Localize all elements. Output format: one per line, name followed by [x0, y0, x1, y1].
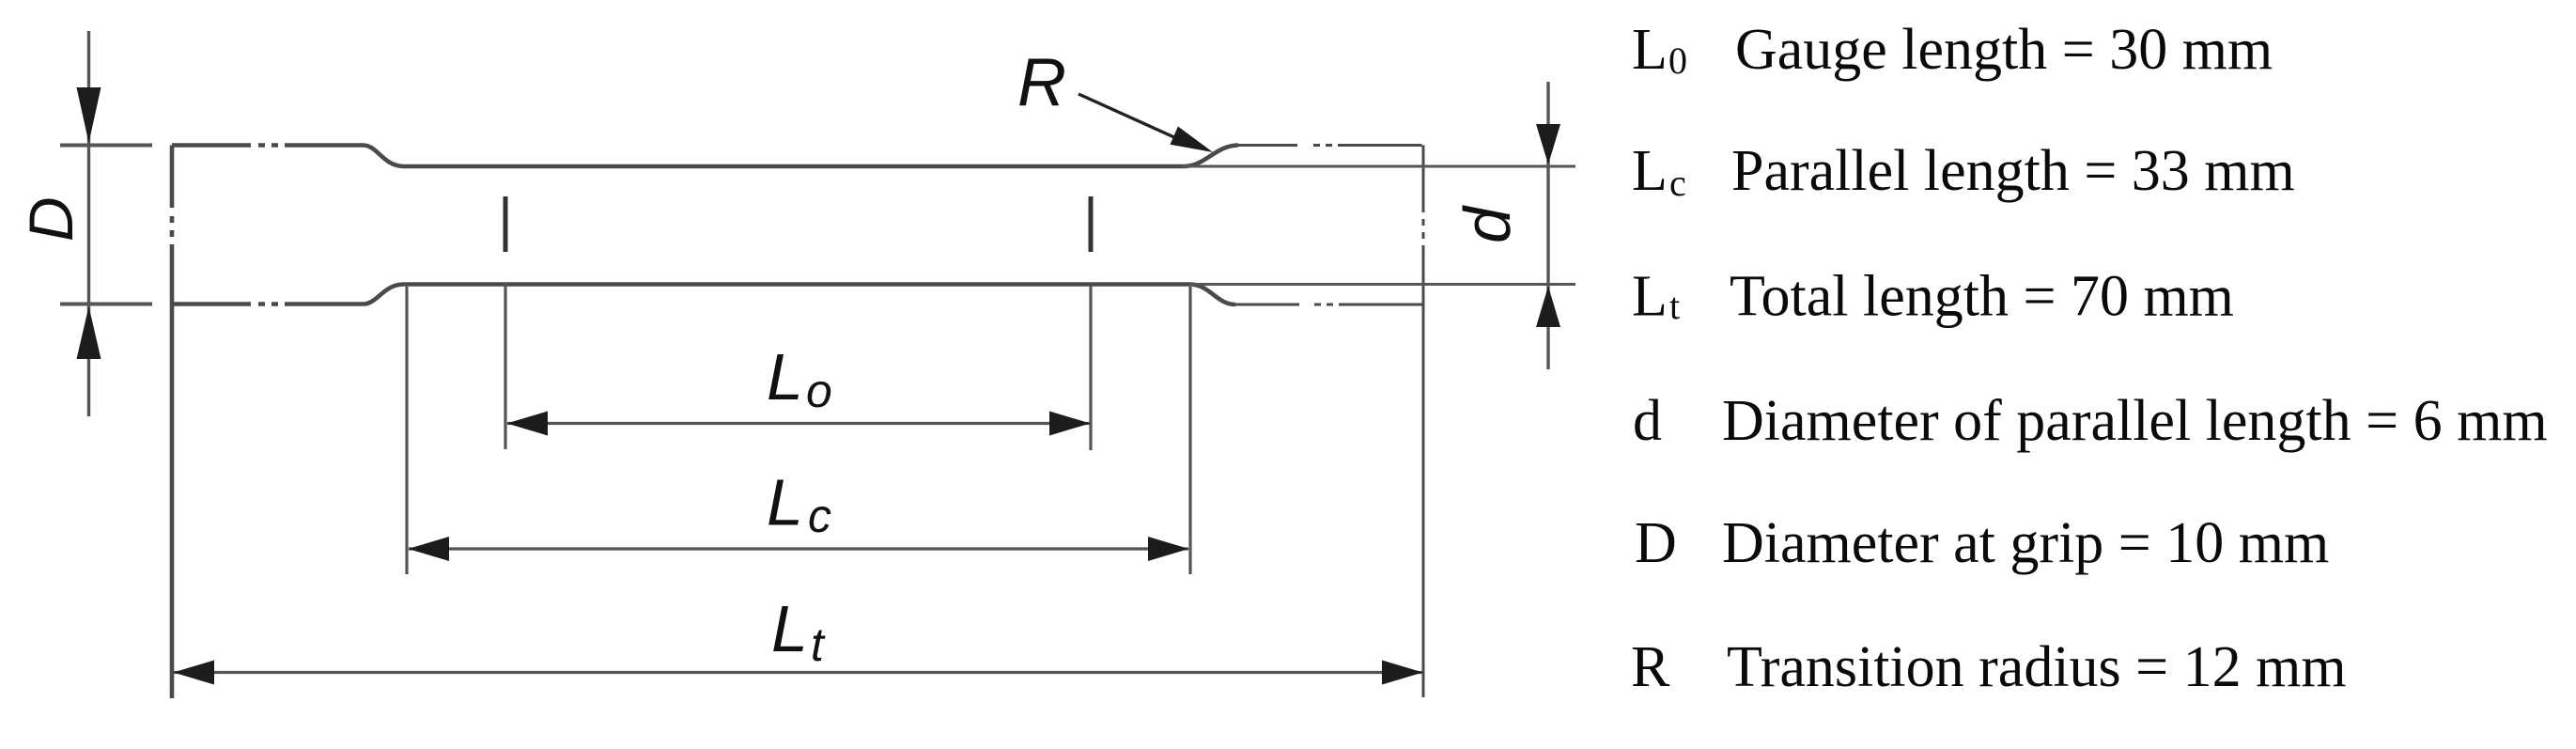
Lc extension line left [405, 287, 408, 574]
svg-text:L: L [767, 466, 803, 539]
svg-text:c: c [1669, 162, 1686, 204]
legend row 4: d Diameter of parallel length [1633, 389, 2548, 453]
svg-text:c: c [808, 490, 831, 542]
svg-text:d: d [1633, 389, 1662, 453]
gauge length tick right [1089, 196, 1094, 252]
d extension line top [1182, 165, 1575, 168]
svg-text:L: L [767, 340, 803, 414]
svg-text:Parallel length = 33 mm: Parallel length = 33 mm [1731, 139, 2295, 203]
legend row 3: Lt Total length [1632, 265, 2234, 329]
Lc dimension line [409, 547, 1188, 550]
d arrow down [1536, 124, 1560, 164]
D dimension tick bottom [60, 303, 152, 306]
svg-text:d: d [1451, 205, 1524, 243]
svg-text:R: R [1631, 635, 1670, 699]
svg-text:Transition radius = 12 mm: Transition radius = 12 mm [1727, 635, 2347, 699]
R leader line [1079, 94, 1176, 138]
right top transition fillet R [1186, 146, 1238, 167]
svg-text:D: D [1635, 511, 1677, 575]
parallel section top edge [404, 164, 1186, 169]
D dimension tick top [60, 144, 152, 148]
d arrow up [1536, 287, 1560, 328]
svg-text:Diameter of parallel length =: Diameter of parallel length = 6 mm [1722, 389, 2548, 453]
D arrow up [77, 306, 101, 359]
svg-text:o: o [806, 365, 832, 417]
svg-text:L: L [771, 592, 808, 665]
svg-text:L: L [1632, 18, 1668, 82]
Lc arrow right [1148, 537, 1189, 561]
parallel section bottom edge [404, 282, 1190, 287]
L0 arrow left [507, 412, 549, 436]
d extension line bottom [1190, 283, 1575, 286]
legend row 1: L0 Gauge length [1632, 18, 2273, 82]
R leader arrowhead [1171, 127, 1214, 153]
svg-text:t: t [811, 618, 826, 671]
svg-text:D: D [16, 196, 85, 242]
Lc extension line right [1188, 287, 1191, 574]
left bottom transition fillet [364, 285, 404, 304]
svg-text:L: L [1632, 265, 1668, 329]
L0 extension line right [1089, 285, 1092, 450]
Lc arrow left [409, 537, 450, 561]
specimen left grip bottom edge (phantom line) [172, 302, 364, 306]
D arrow down [77, 87, 101, 143]
d dimension line vertical [1546, 82, 1549, 369]
svg-text:R: R [1017, 45, 1066, 120]
svg-text:Diameter at grip = 10 mm: Diameter at grip = 10 mm [1722, 511, 2329, 575]
specimen left grip top edge (phantom line) [172, 146, 1238, 699]
gauge length tick left [504, 196, 508, 252]
legend row 6: R Transition radius [1631, 635, 2347, 699]
D dimension line vertical [87, 31, 90, 416]
specimen right grip bottom edge (thin, phantom) [1235, 304, 1422, 306]
L0 dimension line [507, 422, 1090, 425]
svg-text:Total length = 70 mm: Total length = 70 mm [1730, 265, 2234, 329]
specimen right grip top edge (thin, phantom) [1235, 146, 1423, 698]
right bottom transition fillet [1190, 285, 1235, 305]
L0 arrow right [1049, 412, 1091, 436]
svg-text:L: L [1632, 139, 1668, 203]
svg-text:Gauge length = 30 mm: Gauge length = 30 mm [1735, 18, 2273, 82]
specimen right end vertical line (with phantom break, extends to Lt) [1422, 146, 1425, 698]
svg-text:t: t [1669, 285, 1680, 327]
specimen left end vertical line (with phantom break, extends to Lt) [170, 146, 175, 699]
svg-text:0: 0 [1668, 39, 1687, 82]
Lt arrow left [174, 661, 215, 685]
Lt arrow right [1382, 661, 1423, 685]
legend row 5: D Diameter at grip [1635, 511, 2329, 575]
legend row 2: Lc Parallel length [1632, 139, 2295, 204]
L0 extension line left [504, 283, 506, 449]
left top transition fillet [364, 146, 404, 167]
Lt dimension line [174, 671, 1422, 674]
